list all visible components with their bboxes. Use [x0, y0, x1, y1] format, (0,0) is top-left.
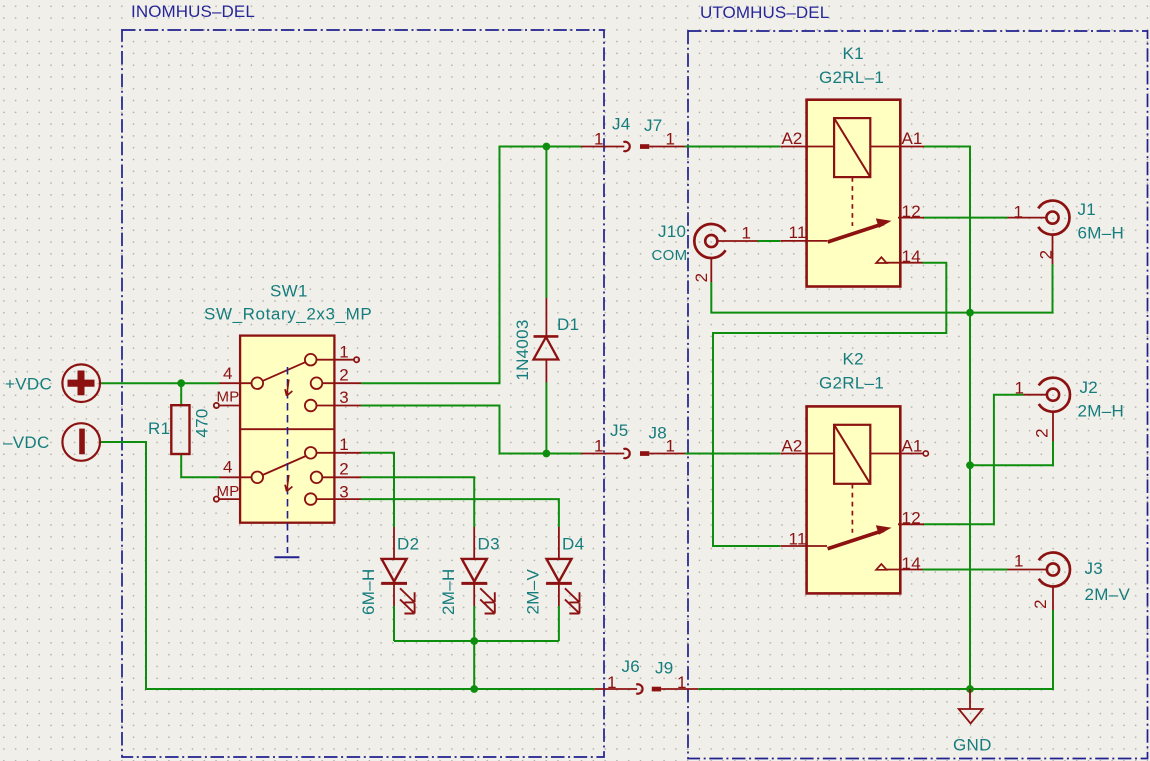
svg-text:1N4003: 1N4003	[513, 319, 532, 380]
svg-text:6M–H: 6M–H	[1078, 224, 1125, 243]
svg-text:2: 2	[1036, 250, 1055, 260]
svg-text:2: 2	[692, 273, 711, 283]
svg-text:SW_Rotary_2x3_MP: SW_Rotary_2x3_MP	[204, 304, 372, 323]
svg-text:1: 1	[666, 130, 676, 149]
svg-text:G2RL–1: G2RL–1	[819, 68, 884, 87]
svg-text:J7: J7	[644, 116, 663, 135]
svg-text:SW1: SW1	[270, 282, 308, 301]
svg-text:J9: J9	[655, 659, 674, 678]
svg-text:G2RL–1: G2RL–1	[819, 373, 884, 392]
svg-text:A1: A1	[902, 129, 923, 148]
svg-text:J10: J10	[658, 222, 686, 241]
svg-text:1: 1	[594, 130, 604, 149]
svg-text:J5: J5	[610, 421, 629, 440]
svg-text:1: 1	[742, 224, 752, 243]
svg-text:J1: J1	[1078, 200, 1097, 219]
svg-text:INOMHUS–DEL: INOMHUS–DEL	[131, 2, 255, 21]
svg-text:470: 470	[192, 408, 211, 437]
svg-text:1: 1	[666, 437, 676, 456]
svg-text:D1: D1	[557, 315, 579, 334]
svg-text:12: 12	[902, 202, 922, 221]
svg-text:A2: A2	[782, 129, 803, 148]
svg-text:1: 1	[1014, 203, 1024, 222]
svg-text:J4: J4	[612, 115, 631, 134]
svg-text:3: 3	[339, 483, 349, 502]
svg-text:MP: MP	[217, 483, 240, 500]
svg-text:2M–V: 2M–V	[1085, 585, 1131, 604]
svg-text:4: 4	[223, 458, 233, 477]
svg-text:D3: D3	[478, 535, 500, 554]
svg-text:A1: A1	[902, 436, 923, 455]
svg-text:2M–V: 2M–V	[524, 569, 543, 615]
svg-text:11: 11	[789, 223, 807, 242]
svg-text:1: 1	[1014, 552, 1024, 571]
svg-text:K2: K2	[843, 350, 864, 369]
svg-text:K1: K1	[843, 44, 864, 63]
svg-text:2M–H: 2M–H	[1078, 401, 1125, 420]
svg-text:2: 2	[1032, 428, 1051, 438]
svg-text:2: 2	[1031, 599, 1050, 609]
svg-text:3: 3	[339, 388, 349, 407]
svg-text:–VDC: –VDC	[3, 433, 50, 452]
svg-text:2: 2	[339, 366, 349, 385]
svg-text:COM: COM	[652, 247, 688, 264]
svg-text:J8: J8	[649, 424, 668, 443]
svg-text:1: 1	[607, 673, 617, 692]
svg-text:2M–H: 2M–H	[439, 568, 458, 615]
svg-text:1: 1	[677, 673, 687, 692]
svg-text:J3: J3	[1085, 559, 1104, 578]
svg-text:14: 14	[902, 247, 922, 266]
svg-text:1: 1	[339, 435, 349, 454]
svg-text:J6: J6	[622, 657, 641, 676]
svg-text:D2: D2	[397, 535, 419, 554]
svg-text:R1: R1	[148, 419, 170, 438]
svg-text:MP: MP	[217, 389, 240, 406]
svg-text:A2: A2	[782, 436, 803, 455]
svg-text:4: 4	[223, 364, 233, 383]
svg-text:+VDC: +VDC	[5, 374, 52, 393]
svg-text:GND: GND	[953, 735, 992, 754]
svg-text:14: 14	[902, 554, 922, 573]
svg-text:2: 2	[339, 460, 349, 479]
svg-text:1: 1	[594, 437, 604, 456]
svg-text:UTOMHUS–DEL: UTOMHUS–DEL	[700, 3, 829, 22]
svg-text:1: 1	[339, 343, 349, 362]
svg-text:J2: J2	[1080, 378, 1099, 397]
svg-text:12: 12	[902, 508, 922, 527]
svg-text:6M–H: 6M–H	[359, 568, 378, 615]
svg-text:1: 1	[1015, 379, 1025, 398]
svg-text:11: 11	[789, 530, 807, 549]
svg-text:D4: D4	[562, 535, 584, 554]
